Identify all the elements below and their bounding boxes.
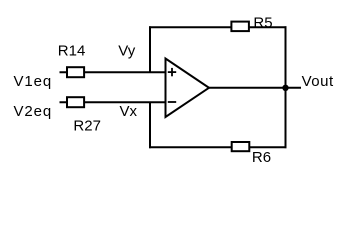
svg-text:R5: R5 — [253, 14, 272, 31]
node label V2eq — [14, 103, 53, 120]
wire: vertical from top wire down to non-inverting input — [149, 26, 151, 73]
node junction dot at Vout — [282, 85, 288, 91]
svg-text:V1eq: V1eq — [14, 73, 53, 90]
resistor R27 — [67, 97, 84, 107]
wire: op-amp output wire to Vout — [208, 87, 301, 89]
svg-text:Vout: Vout — [302, 73, 334, 90]
label R14 — [58, 43, 86, 60]
svg-text:R6: R6 — [252, 149, 271, 166]
node label Vx — [120, 103, 138, 120]
resistor R6 — [232, 142, 250, 151]
op-amp plus pin marker — [168, 68, 176, 76]
resistor R5 — [231, 22, 249, 32]
svg-text:Vx: Vx — [120, 103, 138, 120]
wire: V1eq input wire to op-amp non-inverting input — [60, 71, 167, 73]
op-amp minus pin marker — [168, 101, 176, 103]
wire: bottom feedback wire — [149, 146, 287, 148]
svg-text:R14: R14 — [58, 43, 86, 60]
svg-text:R27: R27 — [73, 118, 101, 135]
op-amp U1 triangle — [166, 59, 210, 118]
wire: top feedback wire — [149, 26, 287, 28]
node label V1eq — [14, 73, 53, 90]
resistor R14 — [67, 67, 84, 77]
svg-text:Vy: Vy — [118, 43, 135, 60]
label R27 — [73, 118, 101, 135]
wire: V2eq input wire to op-amp inverting input — [60, 101, 167, 103]
label R6 — [252, 149, 271, 166]
wire: right vertical from R5 to R6 through Vout node — [285, 26, 287, 148]
node label Vy — [118, 43, 135, 60]
node label Vout — [302, 73, 334, 90]
wire: vertical from inverting input down to bottom wire — [149, 102, 151, 149]
label R5 — [253, 14, 272, 31]
svg-text:V2eq: V2eq — [14, 103, 53, 120]
